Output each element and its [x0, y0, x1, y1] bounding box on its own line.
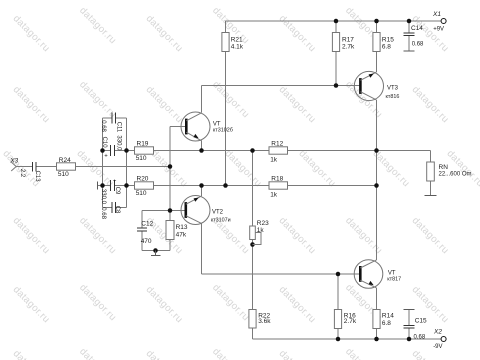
- svg-text:кт817: кт817: [387, 276, 401, 282]
- svg-text:2.7k: 2.7k: [344, 318, 357, 325]
- resistor R21 4.1k: [222, 33, 244, 52]
- wire VT1 emitter row with R19 R12 to output rail and RN: [103, 150, 431, 152]
- svg-text:datagor.ru: datagor.ru: [343, 215, 384, 256]
- resistor R12 1k: [269, 140, 288, 163]
- svg-text:C15: C15: [415, 318, 427, 325]
- resistor R24 510: [57, 157, 76, 178]
- capacitor C14 0.68: [404, 25, 425, 48]
- svg-text:X3: X3: [9, 158, 18, 165]
- svg-text:1k: 1k: [257, 227, 265, 234]
- svg-text:datagor.ru: datagor.ru: [144, 348, 185, 360]
- svg-text:datagor.ru: datagor.ru: [74, 148, 115, 189]
- svg-text:2.7k: 2.7k: [342, 44, 355, 51]
- wire C12 left branch: [141, 211, 143, 251]
- svg-text:datagor.ru: datagor.ru: [444, 148, 480, 189]
- svg-text:510: 510: [136, 155, 147, 162]
- node bottom rail C15: [407, 337, 412, 342]
- svg-text:datagor.ru: datagor.ru: [11, 13, 52, 54]
- svg-text:datagor.ru: datagor.ru: [77, 5, 118, 46]
- ground under C14: [404, 50, 415, 52]
- svg-text:R15: R15: [382, 37, 394, 44]
- resistor RN 22...600 Om load: [427, 162, 472, 181]
- svg-text:6.8: 6.8: [382, 320, 391, 327]
- resistor R13 47k: [166, 221, 188, 240]
- svg-text:3.6k: 3.6k: [258, 318, 271, 325]
- wire VT1 emitter lead: [201, 141, 203, 151]
- svg-text:C12: C12: [141, 221, 153, 228]
- svg-text:datagor.ru: datagor.ru: [144, 13, 185, 54]
- svg-text:+: +: [113, 179, 117, 185]
- wire R17 column: [335, 21, 337, 86]
- svg-text:datagor.ru: datagor.ru: [77, 282, 118, 323]
- resistor R20 510: [135, 175, 154, 196]
- svg-text:-9V: -9V: [433, 344, 442, 350]
- capacitor C13 2.2: [19, 162, 40, 182]
- trimmer R23 1k with wiper: [250, 220, 269, 245]
- node R21 bottom: [223, 183, 228, 188]
- svg-text:510: 510: [136, 190, 147, 197]
- svg-text:R12: R12: [271, 140, 283, 147]
- wire top +9V rail: [226, 20, 441, 22]
- node C10 left: [100, 148, 105, 153]
- wire VT2 base row with C12 top: [142, 210, 185, 212]
- svg-text:R20: R20: [137, 175, 149, 182]
- capacitor C10 330.0 polar: [101, 135, 121, 159]
- resistor R19 510: [135, 140, 154, 161]
- node VT4 base R16: [336, 272, 341, 277]
- svg-text:C10: C10: [101, 137, 107, 149]
- wire C8 branch: [103, 207, 127, 209]
- svg-text:datagor.ru: datagor.ru: [11, 284, 52, 325]
- wire VT2 collector lead: [201, 223, 203, 274]
- wire input row X3 to C13 R24 to base rail: [16, 166, 170, 168]
- svg-text:C8: C8: [114, 206, 120, 214]
- node top rail R15: [374, 19, 379, 24]
- svg-text:datagor.ru: datagor.ru: [277, 348, 318, 360]
- ground under RN: [425, 195, 437, 197]
- transistor VT2 kt3107 PNP: [181, 196, 231, 225]
- svg-text:R19: R19: [137, 140, 149, 147]
- resistor R14 6.8: [373, 310, 394, 329]
- svg-text:R13: R13: [176, 224, 188, 231]
- node bottom rail R14: [374, 337, 379, 342]
- wire bottom -9V rail: [253, 338, 441, 340]
- wire R21 column: [225, 21, 227, 186]
- node bottom rail R16: [336, 337, 341, 342]
- wire left capacitor bank vertical left: [102, 118, 104, 208]
- wire C12 R13 bottom loop: [142, 250, 170, 252]
- svg-text:datagor.ru: datagor.ru: [210, 346, 251, 360]
- svg-text:RN: RN: [439, 164, 449, 171]
- svg-text:1k: 1k: [270, 191, 278, 198]
- svg-text:datagor.ru: datagor.ru: [11, 215, 52, 256]
- resistor R22 3.6k: [249, 310, 271, 329]
- svg-text:R18: R18: [271, 175, 283, 182]
- svg-text:R14: R14: [382, 312, 394, 319]
- terminal X2 -9V: [433, 329, 446, 350]
- capacitor C15 0.68: [404, 318, 428, 341]
- svg-text:VT3: VT3: [387, 85, 399, 91]
- node C9 left ground: [100, 183, 105, 188]
- capacitor C8 0.68: [100, 202, 120, 219]
- svg-text:22...600 Om: 22...600 Om: [439, 172, 472, 178]
- resistor R15 6.8: [373, 33, 394, 52]
- svg-text:datagor.ru: datagor.ru: [148, 148, 189, 189]
- wire R23 R22 column: [252, 151, 254, 340]
- resistor R16 2.7k: [334, 310, 356, 329]
- node C10 right: [124, 148, 129, 153]
- svg-text:X2: X2: [433, 329, 442, 336]
- svg-text:VT2: VT2: [212, 210, 224, 216]
- svg-text:C11: C11: [115, 122, 121, 133]
- svg-text:datagor.ru: datagor.ru: [296, 148, 337, 189]
- node R23 top: [250, 148, 255, 153]
- node C9 right: [124, 183, 129, 188]
- svg-text:0.68: 0.68: [414, 335, 426, 341]
- svg-text:datagor.ru: datagor.ru: [144, 84, 185, 125]
- svg-text:datagor.ru: datagor.ru: [210, 282, 251, 323]
- ground above C15: [404, 309, 415, 311]
- svg-text:R17: R17: [342, 37, 354, 44]
- svg-text:datagor.ru: datagor.ru: [343, 346, 384, 360]
- capacitor C9 330.0 polar: [100, 179, 120, 204]
- svg-text:0.68: 0.68: [100, 207, 106, 219]
- svg-text:C9: C9: [114, 187, 120, 195]
- node VT2 base R13: [168, 208, 173, 213]
- wire VT1 base: [170, 126, 185, 128]
- node ground C12 R13: [153, 248, 158, 253]
- ground under R13 C12: [151, 251, 161, 256]
- wire VT1 collector lead: [201, 86, 203, 113]
- svg-text:2.2: 2.2: [19, 169, 25, 178]
- svg-text:4.1k: 4.1k: [231, 44, 244, 51]
- capacitor C11 0.68: [100, 113, 121, 133]
- wire left capacitor bank vertical right: [126, 118, 128, 208]
- svg-text:datagor.ru: datagor.ru: [410, 215, 451, 256]
- resistor R17 2.7k: [332, 33, 355, 52]
- svg-text:R24: R24: [59, 157, 71, 164]
- svg-text:datagor.ru: datagor.ru: [277, 215, 318, 256]
- svg-text:кт3107и: кт3107и: [211, 217, 231, 223]
- transistor VT3 kt816: [354, 71, 399, 100]
- wire VT2 emitter row with R20 R18: [98, 185, 377, 187]
- svg-text:datagor.ru: datagor.ru: [77, 346, 118, 360]
- svg-text:datagor.ru: datagor.ru: [144, 284, 185, 325]
- svg-text:330,0: 330,0: [115, 135, 121, 151]
- svg-text:datagor.ru: datagor.ru: [410, 84, 451, 125]
- svg-text:0.68: 0.68: [412, 42, 424, 48]
- svg-text:datagor.ru: datagor.ru: [277, 13, 318, 54]
- svg-text:datagor.ru: datagor.ru: [277, 284, 318, 325]
- transistor VT4 kt817 NPN: [354, 260, 401, 289]
- svg-text:0.68: 0.68: [100, 120, 106, 132]
- svg-text:кт816: кт816: [386, 94, 400, 100]
- svg-text:+: +: [104, 154, 108, 160]
- wire output rail column VT3 VT4 R15 R14: [376, 21, 378, 339]
- svg-text:470: 470: [141, 238, 152, 245]
- node output rail R18: [374, 183, 379, 188]
- svg-text:R21: R21: [231, 37, 243, 44]
- wire input vertical rail to bases and R13: [169, 127, 171, 251]
- svg-text:кт3102б: кт3102б: [213, 127, 233, 133]
- svg-text:datagor.ru: datagor.ru: [277, 84, 318, 125]
- svg-text:datagor.ru: datagor.ru: [11, 84, 52, 125]
- wire RN column: [430, 151, 432, 196]
- svg-text:47k: 47k: [176, 231, 187, 238]
- capacitor C12 470: [137, 221, 154, 245]
- node input to base rail: [168, 164, 173, 169]
- svg-text:datagor.ru: datagor.ru: [410, 348, 451, 360]
- svg-text:6.8: 6.8: [382, 44, 391, 51]
- svg-text:+9V: +9V: [433, 27, 444, 33]
- svg-text:330,0: 330,0: [100, 189, 106, 205]
- svg-text:datagor.ru: datagor.ru: [77, 215, 118, 256]
- svg-text:datagor.ru: datagor.ru: [11, 348, 52, 360]
- svg-text:C13: C13: [34, 171, 40, 183]
- node VT2 emitter: [199, 183, 204, 188]
- node R23 wiper: [250, 242, 255, 247]
- svg-text:1k: 1k: [270, 156, 278, 163]
- wire R16 column: [337, 274, 339, 339]
- wire VT2 collector to VT4 base row: [202, 273, 360, 275]
- wire VT2 emitter lead: [201, 186, 203, 197]
- wire C15 column: [408, 310, 410, 340]
- wire VT1 collector to VT3 base row: [202, 85, 360, 87]
- node top rail R17: [334, 19, 339, 24]
- transistor VT1 kt3102b NPN: [181, 112, 233, 141]
- svg-text:C14: C14: [411, 25, 423, 32]
- node VT1 emitter: [199, 148, 204, 153]
- ground left of C9: [97, 182, 99, 190]
- svg-text:datagor.ru: datagor.ru: [222, 148, 263, 189]
- terminal X3 input: [9, 158, 18, 171]
- resistor R18 1k: [269, 175, 288, 198]
- wire C14 column: [408, 21, 410, 51]
- node output rail R12: [374, 148, 379, 153]
- node top rail C14: [407, 19, 412, 24]
- terminal X1 +9V: [432, 11, 446, 32]
- wire C11 branch: [103, 117, 127, 119]
- node VT3 base R17: [334, 83, 339, 88]
- svg-text:510: 510: [58, 171, 69, 178]
- svg-text:X1: X1: [432, 11, 441, 18]
